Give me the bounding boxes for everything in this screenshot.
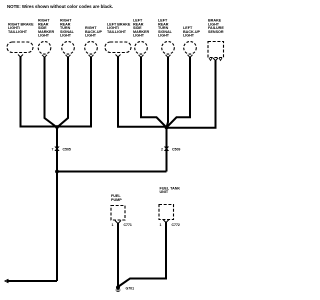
svg-text:7: 7 — [52, 148, 54, 152]
label brake light failure sensor — [208, 19, 224, 34]
lamp left rear turn signal light — [162, 42, 175, 55]
lamp left brake light/taillight — [105, 42, 131, 53]
lamp right brake light/taillight — [7, 42, 33, 53]
svg-text:LIGHT: LIGHT — [183, 34, 195, 38]
pin connector brake light failure sensor left tick — [209, 58, 212, 61]
wire brake light failure sensor to junction — [167, 60, 216, 128]
svg-text:TAILLIGHT: TAILLIGHT — [107, 30, 127, 34]
wire right trunk down from junction — [56, 127, 58, 281]
pin connector brake light failure sensor right tick — [219, 58, 222, 61]
node trunk junction — [55, 170, 59, 174]
label left brake light/taillight — [107, 22, 131, 34]
connector C505 — [54, 147, 59, 152]
pin connector left back-up light — [188, 55, 193, 58]
svg-text:LIGHT: LIGHT — [158, 34, 170, 38]
node left group junction — [165, 126, 169, 130]
label right rear side marker light — [38, 19, 55, 38]
wire fuel pump to ground — [117, 223, 119, 287]
lamp right rear turn signal light — [62, 42, 75, 55]
label left rear turn signal light — [158, 19, 173, 38]
lamp right back-up light — [85, 42, 98, 55]
ground G701 — [116, 286, 121, 292]
pin connector fuel tank unit — [163, 220, 169, 223]
svg-text:SENSOR: SENSOR — [208, 30, 224, 34]
svg-text:1: 1 — [112, 223, 114, 227]
svg-text:C772: C772 — [172, 223, 180, 227]
component fuel pump — [111, 206, 125, 221]
wire left back-up light to junction — [167, 57, 191, 128]
wire right rear turn signal to junction — [57, 57, 68, 128]
svg-text:LIGHT: LIGHT — [60, 34, 72, 38]
pin connector left rear turn signal light — [166, 55, 171, 58]
pin connector brake light failure sensor center — [213, 58, 218, 61]
lamp left rear side marker light — [135, 42, 148, 55]
pin connector left brake light/taillight — [116, 55, 121, 58]
connector off-page arrow — [5, 279, 9, 283]
wire left brake light to junction — [118, 57, 167, 127]
wire fuel tank unit to ground — [119, 222, 167, 287]
label fuel pump — [111, 194, 122, 202]
label left back-up light — [183, 26, 201, 38]
wire left rear turn signal to junction — [167, 57, 169, 128]
sensor U1 brake light failure sensor — [208, 42, 224, 58]
pin connector right back-up light — [89, 55, 94, 58]
svg-text:PUMP: PUMP — [111, 198, 122, 202]
svg-text:LIGHT: LIGHT — [85, 34, 97, 38]
wire right rear side marker to junction — [45, 57, 58, 128]
wire link between trunks — [57, 171, 167, 173]
component fuel tank unit — [159, 205, 174, 220]
svg-text:UNIT: UNIT — [160, 190, 169, 194]
wire right back-up light to junction — [57, 57, 91, 127]
lamp left back-up light — [184, 42, 197, 55]
svg-text:LIGHT: LIGHT — [133, 34, 145, 38]
svg-text:LIGHT: LIGHT — [38, 34, 50, 38]
wire right brake light to junction — [21, 57, 58, 127]
pin connector fuel pump — [115, 221, 121, 224]
node right group junction — [55, 125, 59, 129]
pin connector left rear side marker light — [139, 55, 144, 58]
wire bottom run to off-page — [7, 280, 57, 282]
lamp right rear side marker light — [38, 42, 51, 55]
svg-text:1: 1 — [160, 223, 162, 227]
wire left rear side marker to junction — [141, 57, 167, 128]
pin connector right rear side marker light — [42, 55, 47, 58]
label right brake light/taillight — [8, 22, 34, 34]
svg-text:NOTE: Wires shown without colo: NOTE: Wires shown without color codes ar… — [7, 4, 113, 9]
svg-text:2: 2 — [161, 148, 163, 152]
label left rear side marker light — [133, 19, 150, 38]
pin connector right rear turn signal light — [66, 55, 71, 58]
svg-text:C771: C771 — [124, 223, 132, 227]
label right back-up light — [85, 26, 103, 38]
svg-text:C505: C505 — [63, 148, 71, 152]
label fuel tank unit — [160, 186, 181, 194]
connector C509 — [164, 147, 169, 152]
pin connector right brake light/taillight — [18, 55, 23, 58]
wire left trunk down from junction — [166, 128, 168, 172]
label right rear turn signal light — [60, 19, 75, 38]
svg-text:G701: G701 — [126, 287, 135, 291]
svg-text:TAILLIGHT: TAILLIGHT — [8, 30, 28, 34]
svg-text:C509: C509 — [172, 148, 180, 152]
